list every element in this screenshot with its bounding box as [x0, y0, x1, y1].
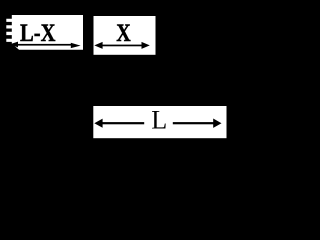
dimension arrow under L-X: [10, 42, 81, 49]
svg-text:L-X: L-X: [20, 20, 56, 47]
segment box L-X (torn left edge): [6, 15, 83, 50]
segment box X: [94, 16, 156, 55]
svg-text:L: L: [151, 106, 167, 135]
dimension arrow under X: [94, 42, 150, 49]
full-length box L: [93, 106, 226, 138]
svg-text:X: X: [116, 20, 131, 47]
dimension arrow left of L: [94, 119, 144, 128]
dimension arrow right of L: [173, 119, 222, 128]
